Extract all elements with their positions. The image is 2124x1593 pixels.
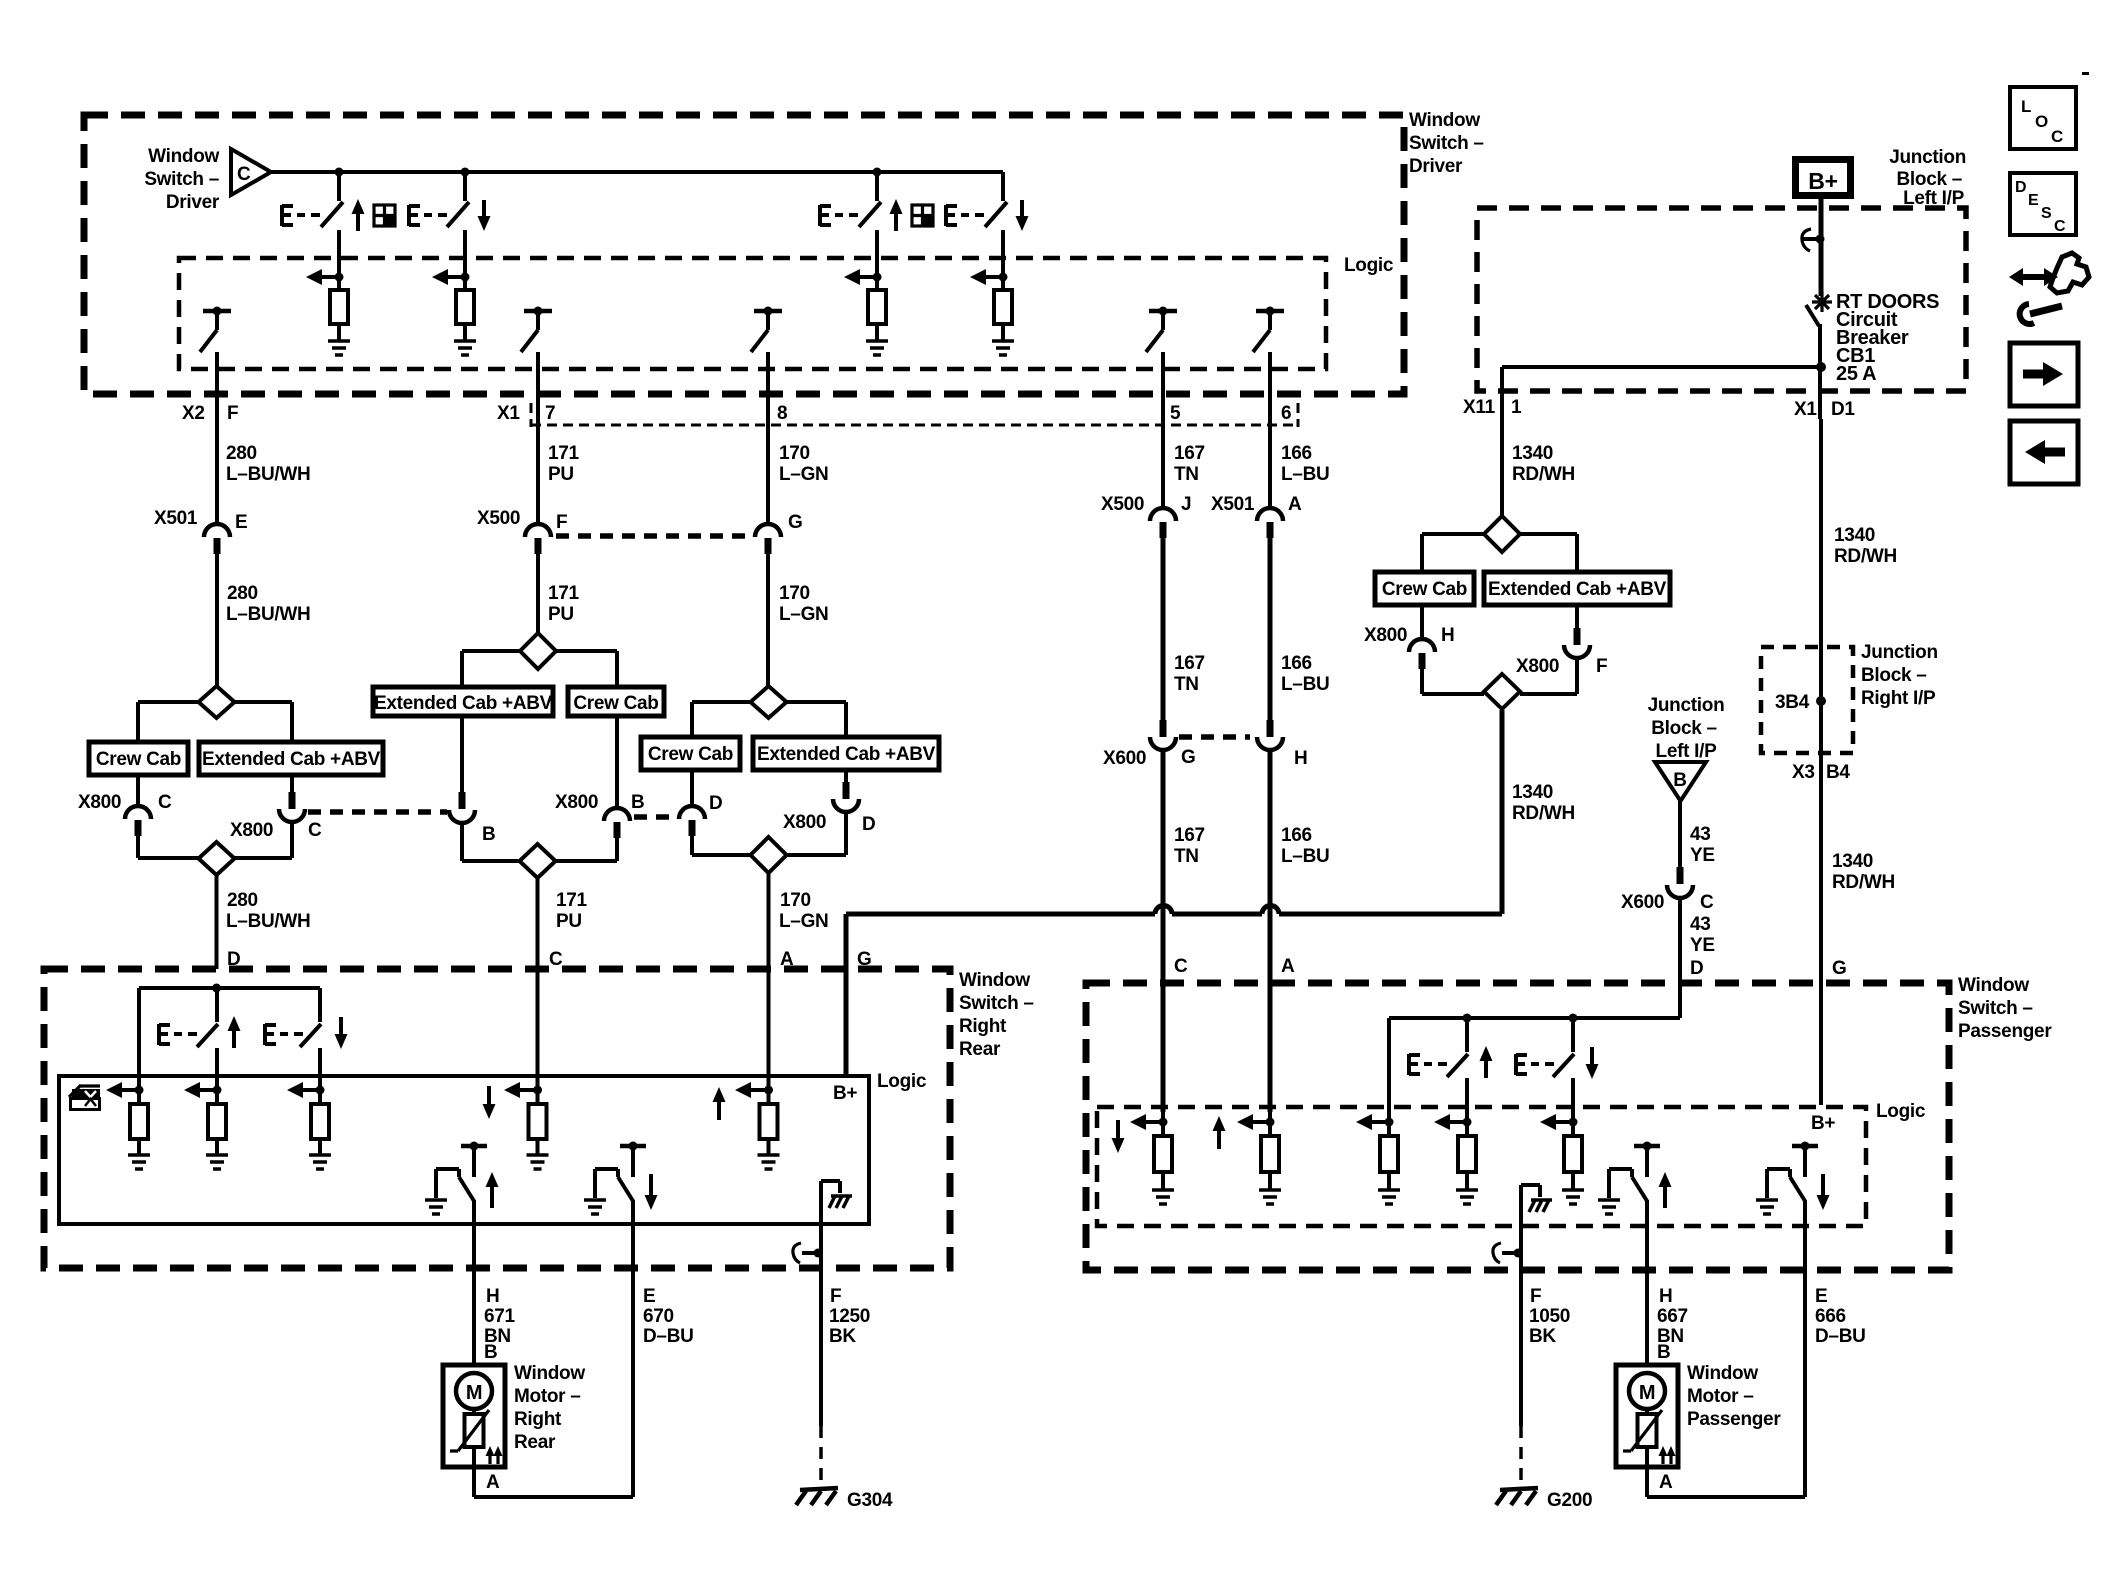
svg-text:Switch –: Switch – (959, 993, 1034, 1014)
wire: 170 crew-cab branch (692, 702, 751, 737)
wire label 171 PU (upper) (548, 443, 580, 485)
merge diamond (wire 170) (751, 837, 787, 873)
resistor R-up (right pair) with arrow and ground (844, 269, 888, 355)
pin X11 1 (1463, 397, 1522, 418)
motor drive switch DOWN (output E) (1756, 1142, 1830, 1227)
option box Extended Cab +ABV (wire 1340) (1484, 572, 1670, 605)
svg-text:B4: B4 (1826, 762, 1850, 783)
option box Extended Cab +ABV (wire 170) (753, 737, 939, 770)
svg-text:170: 170 (779, 443, 810, 464)
resistor R-down (left pair) with arrow and ground (432, 269, 476, 355)
svg-text:D: D (2015, 179, 2026, 196)
circuit breaker CB1 contact (1806, 291, 1939, 419)
svg-text:Rear: Rear (514, 1432, 556, 1453)
svg-text:Switch –: Switch – (1409, 133, 1484, 154)
svg-text:F: F (1530, 1286, 1541, 1307)
wire: 280 extended-cab branch (235, 702, 293, 742)
svg-text:Right: Right (959, 1016, 1007, 1037)
svg-text:PU: PU (556, 911, 582, 932)
resistor column 3 (down switch sense) (287, 1082, 331, 1169)
resistor column down switch sense (1540, 1114, 1584, 1204)
switch: driver window UP contact E (left pair) (282, 172, 365, 290)
svg-text:1250: 1250 (829, 1306, 870, 1327)
svg-text:L–GN: L–GN (779, 604, 828, 625)
svg-text:S: S (2041, 205, 2052, 222)
resistor column 1 (window lockout) (106, 1082, 150, 1169)
svg-text:RD/WH: RD/WH (1512, 464, 1575, 485)
connector triangle B (Junction Block Left I/P) (1655, 762, 1706, 801)
svg-text:B+: B+ (1808, 168, 1837, 194)
svg-text:D1: D1 (1831, 399, 1855, 420)
svg-text:G: G (1181, 747, 1195, 768)
svg-text:Window: Window (1958, 975, 2029, 996)
svg-text:B: B (1657, 1342, 1670, 1363)
svg-text:5: 5 (1170, 403, 1181, 424)
svg-text:X800: X800 (783, 812, 826, 833)
option box Crew Cab (wire 171) (568, 687, 664, 716)
svg-text:Logic: Logic (1876, 1101, 1926, 1122)
svg-text:O: O (2035, 112, 2048, 131)
connector X800 pin C (extended branch) with link dashes (230, 775, 447, 858)
output switch pin 6 (wire 166) (1253, 307, 1284, 509)
logic ground tie (pin F output) (1521, 1185, 1552, 1255)
nav icon back arrow (2010, 421, 2078, 484)
svg-text:TN: TN (1174, 464, 1199, 485)
wire: motor A to 666 D-BU (1647, 1495, 1805, 1499)
svg-text:F: F (556, 512, 567, 533)
svg-text:Extended Cab +ABV: Extended Cab +ABV (757, 744, 936, 765)
svg-text:D: D (709, 793, 722, 814)
nav icon forward arrow (2010, 343, 2078, 406)
svg-text:Window: Window (1409, 110, 1480, 131)
wire: B+ into junction block (1819, 199, 1824, 296)
svg-text:Window: Window (1687, 1363, 1758, 1384)
driver Logic box (179, 255, 1394, 369)
connector X800 pin C (crew branch) (78, 775, 199, 858)
svg-text:Junction: Junction (1889, 147, 1966, 168)
wire label 167 TN (upper) (1174, 443, 1205, 485)
svg-text:171: 171 (548, 583, 580, 604)
wire: 170 extended-cab branch (787, 702, 847, 737)
wire 671 BN to window motor (474, 1224, 516, 1365)
resistor column pin C (504, 1082, 549, 1169)
svg-text:A: A (1281, 956, 1295, 977)
wire 170 L-GN to pin A (769, 873, 829, 1104)
svg-text:L–BU: L–BU (1281, 846, 1329, 867)
Window Switch - Right Rear outer box (44, 969, 1034, 1268)
svg-text:X3: X3 (1792, 762, 1815, 783)
wire 166 L-BU to pin A (passenger) (1270, 751, 1329, 1136)
wire 1050 BK to ground (1521, 1255, 1570, 1481)
stray mark (2082, 72, 2089, 75)
terminal hook (B+ bus tap) (1802, 229, 1825, 251)
wire 170 L-GN to splice diamond (768, 554, 828, 686)
svg-text:D–BU: D–BU (1815, 1326, 1866, 1347)
svg-text:167: 167 (1174, 825, 1205, 846)
splice diamond (wire 280) (199, 686, 235, 718)
svg-text:BK: BK (1529, 1326, 1556, 1347)
up direction arrow (pin A input) (713, 1087, 726, 1120)
wire 666 D-BU from motor loop (1805, 1226, 1866, 1497)
pin X1 7 (497, 403, 555, 424)
window motor - right rear (443, 1363, 585, 1497)
logic ground tie (pin F output) (821, 1181, 852, 1255)
wire label 166 L-BU (upper) (1281, 443, 1329, 485)
connector X600 pin C (1621, 867, 1714, 913)
svg-text:C: C (2051, 127, 2063, 146)
svg-text:Logic: Logic (877, 1071, 927, 1092)
svg-text:X501: X501 (1211, 494, 1255, 515)
svg-text:Block –: Block – (1897, 169, 1963, 190)
svg-text:G: G (1832, 958, 1846, 979)
connector X800 pin B (extended branch) (449, 716, 520, 861)
option box Extended Cab +ABV (wire 171) (373, 687, 553, 716)
switch: passenger DOWN contact E (1516, 1018, 1599, 1136)
splice diamond (wire 170) (751, 686, 787, 718)
wire: 171 extended-cab branch (462, 651, 520, 687)
Junction Block - Right I/P dashed box (1761, 642, 1938, 783)
window motor - passenger (1616, 1363, 1781, 1497)
connector X800 pin D (crew branch) (679, 770, 751, 855)
resistor R-down (right pair) with arrow and ground (970, 269, 1014, 355)
connector X1 boundary dashed line (531, 403, 1298, 427)
svg-text:H: H (1441, 625, 1454, 646)
svg-text:43: 43 (1690, 824, 1711, 845)
svg-text:C: C (237, 164, 251, 185)
svg-text:171: 171 (548, 443, 580, 464)
svg-text:RD/WH: RD/WH (1512, 803, 1575, 824)
ground G304 (796, 1488, 893, 1511)
svg-text:F: F (1596, 656, 1607, 677)
svg-text:B+: B+ (1811, 1113, 1835, 1134)
motor drive switch UP (output H) (425, 1142, 499, 1225)
svg-text:670: 670 (643, 1306, 674, 1327)
svg-text:D: D (862, 814, 875, 835)
svg-text:H: H (1294, 748, 1307, 769)
svg-text:C: C (2054, 218, 2066, 235)
svg-text:YE: YE (1690, 845, 1715, 866)
resistor column pin C (1130, 1114, 1174, 1204)
svg-text:Right I/P: Right I/P (1861, 688, 1936, 709)
resistor column up switch sense (1434, 1114, 1478, 1204)
passenger logic box (1097, 1101, 1926, 1226)
svg-text:D–BU: D–BU (643, 1326, 694, 1347)
svg-text:H: H (486, 1286, 499, 1307)
connector X500 pin F (477, 508, 567, 554)
wire 280 L-BU/WH to splice diamond (217, 554, 310, 686)
svg-text:L–BU: L–BU (1281, 464, 1329, 485)
svg-text:Window: Window (959, 970, 1030, 991)
svg-text:B: B (631, 792, 644, 813)
connector X600 pin H (1257, 720, 1307, 769)
svg-text:1340: 1340 (1832, 851, 1873, 872)
output switch pin 5 (wire 167) (1146, 307, 1177, 509)
svg-text:166: 166 (1281, 653, 1312, 674)
svg-text:X1: X1 (497, 403, 520, 424)
svg-text:X11: X11 (1463, 397, 1496, 418)
resistor column 2 (up switch sense) (184, 1082, 228, 1169)
svg-text:280: 280 (227, 890, 258, 911)
svg-text:Driver: Driver (1409, 156, 1463, 177)
svg-text:167: 167 (1174, 653, 1205, 674)
pin X2 F (182, 403, 238, 424)
svg-text:L–GN: L–GN (779, 911, 828, 932)
svg-text:671: 671 (484, 1306, 516, 1327)
wire: 280 crew-cab branch (138, 702, 199, 742)
output switch pin 8 (wire 170) (751, 307, 782, 525)
svg-text:1340: 1340 (1834, 525, 1875, 546)
splice diamond (wire 171) (520, 633, 556, 669)
svg-text:B: B (1673, 770, 1686, 791)
svg-text:Crew Cab: Crew Cab (1382, 579, 1467, 600)
svg-text:666: 666 (1815, 1306, 1846, 1327)
svg-text:667: 667 (1657, 1306, 1688, 1327)
connector X500 pin J (1101, 494, 1191, 538)
option box Crew Cab (wire 280) (89, 742, 188, 775)
svg-text:C: C (1700, 892, 1714, 913)
splice diamond (wire 1340) (1484, 516, 1520, 552)
wire: 1340 crew-cab branch (1422, 534, 1484, 572)
svg-text:YE: YE (1690, 935, 1715, 956)
connector X500 pin G with link dashes (556, 512, 802, 554)
svg-text:1340: 1340 (1512, 782, 1553, 803)
svg-text:170: 170 (779, 583, 810, 604)
svg-text:7: 7 (545, 403, 555, 424)
svg-text:X500: X500 (477, 508, 520, 529)
wire label 1340 RD/WH (lower right) (1832, 851, 1895, 979)
svg-text:280: 280 (227, 583, 258, 604)
svg-text:L: L (2021, 97, 2031, 116)
svg-text:X1: X1 (1794, 399, 1817, 420)
svg-text:E: E (643, 1286, 655, 1307)
wire: pin D split bracket (139, 984, 320, 1105)
svg-text:3B4: 3B4 (1775, 692, 1810, 713)
svg-text:X800: X800 (1364, 625, 1407, 646)
wire 1250 BK to ground (821, 1255, 870, 1481)
svg-text:280: 280 (226, 443, 257, 464)
wire 43 YE to pin D (passenger) (1680, 899, 1715, 1018)
svg-text:G200: G200 (1547, 1490, 1592, 1511)
wire label 280 L-BU/WH (upper) (226, 443, 310, 485)
right rear logic box (59, 1071, 927, 1224)
merge diamond (wire 1340) (1484, 674, 1520, 709)
svg-text:A: A (486, 1472, 500, 1493)
svg-text:X800: X800 (230, 820, 273, 841)
svg-text:X800: X800 (1516, 656, 1559, 677)
svg-text:C: C (308, 820, 322, 841)
svg-text:Driver: Driver (166, 192, 220, 213)
svg-text:G304: G304 (847, 1490, 893, 1511)
svg-text:1050: 1050 (1529, 1306, 1570, 1327)
svg-text:Window: Window (514, 1363, 585, 1384)
svg-text:Extended Cab +ABV: Extended Cab +ABV (374, 693, 553, 714)
output switch pin F (wire 280) (200, 307, 231, 525)
svg-text:Crew Cab: Crew Cab (648, 744, 733, 765)
motor drive switch UP (output H) (1598, 1142, 1672, 1227)
svg-text:E: E (235, 512, 247, 533)
nav icon DESC (2010, 173, 2076, 235)
switch: driver window DOWN contact E (left pair) (409, 172, 491, 290)
svg-text:BK: BK (829, 1326, 856, 1347)
svg-text:C: C (549, 949, 563, 970)
svg-text:F: F (830, 1286, 841, 1307)
svg-text:B: B (482, 824, 495, 845)
svg-text:Logic: Logic (1344, 255, 1394, 276)
down direction arrow (pin C input) (483, 1086, 496, 1119)
svg-text:D: D (1690, 958, 1703, 979)
window icon (left pair) (374, 205, 395, 226)
wire 280 L-BU/WH to pin D (217, 875, 311, 970)
svg-text:M: M (1639, 1382, 1655, 1404)
motor drive switch DOWN (output E) (584, 1142, 658, 1225)
svg-text:Crew Cab: Crew Cab (573, 693, 658, 714)
resistor column pin A (1237, 1114, 1281, 1204)
wire 171 PU to pin C (538, 878, 588, 1104)
wire label 1340 RD/WH (left drop) (1512, 443, 1575, 485)
Junction Block - Left I/P label (mid) (1648, 695, 1725, 762)
wire: B+ bus from triangle C across switch tops (271, 168, 1003, 177)
wire 167 TN to pin C (passenger) (1163, 751, 1205, 1136)
wire: motor A to 670 D-BU (474, 1495, 633, 1499)
svg-text:25 A: 25 A (1836, 363, 1876, 385)
wire: 1340 extended-cab branch (1520, 534, 1577, 572)
svg-text:Passenger: Passenger (1958, 1021, 2052, 1042)
svg-text:Window: Window (148, 146, 219, 167)
switch: right rear UP contact E (159, 988, 241, 1104)
svg-text:Crew Cab: Crew Cab (96, 749, 181, 770)
connector X800 pin D (extended branch) (783, 770, 875, 855)
svg-text:E: E (2028, 192, 2039, 209)
svg-text:RD/WH: RD/WH (1834, 546, 1897, 567)
Window Switch - Driver outer box (84, 110, 1484, 394)
switch: driver window DOWN contact E (right pair) (946, 172, 1029, 290)
wire 167 TN between connectors (1163, 538, 1205, 720)
svg-text:H: H (1659, 1286, 1672, 1307)
merge diamond (wire 280) (199, 842, 235, 875)
resistor column pin A (735, 1082, 780, 1169)
option box Crew Cab (wire 170) (641, 737, 740, 770)
wire label 170 L-GN (upper) (779, 443, 828, 485)
wire 171 PU to splice diamond (538, 554, 580, 633)
svg-text:L–BU/WH: L–BU/WH (226, 604, 310, 625)
svg-text:L–BU/WH: L–BU/WH (226, 464, 310, 485)
wire 670 D-BU from motor loop (633, 1224, 694, 1497)
window indicator icon (69, 1085, 100, 1110)
svg-text:Junction: Junction (1648, 695, 1725, 716)
output switch pin 7 (wire 171) (521, 307, 552, 525)
svg-text:Extended Cab +ABV: Extended Cab +ABV (202, 749, 381, 770)
switch: passenger UP contact E (1409, 1018, 1493, 1136)
svg-text:L–BU/WH: L–BU/WH (226, 911, 310, 932)
svg-text:43: 43 (1690, 914, 1711, 935)
svg-text:Switch –: Switch – (144, 169, 219, 190)
ground G200 (1496, 1488, 1592, 1511)
svg-text:B+: B+ (833, 1083, 857, 1104)
window icon (right pair) (912, 205, 933, 226)
svg-text:G: G (788, 512, 802, 533)
connector X501 pin A (1211, 494, 1302, 538)
svg-text:X800: X800 (78, 792, 121, 813)
svg-text:TN: TN (1174, 846, 1199, 867)
wire: 171 crew-cab branch (556, 651, 617, 687)
terminal hook (pin F) (793, 1243, 823, 1263)
option box Crew Cab (wire 1340) (1375, 572, 1474, 605)
connector X800 pin H (crew branch) (1364, 605, 1484, 694)
up direction arrow (pin A input) (1213, 1116, 1226, 1149)
svg-text:TN: TN (1174, 674, 1199, 695)
svg-text:1340: 1340 (1512, 443, 1553, 464)
B+ feed box (1796, 160, 1851, 196)
svg-text:B: B (484, 1342, 497, 1363)
svg-text:Extended Cab +ABV: Extended Cab +ABV (1488, 579, 1667, 600)
svg-text:X800: X800 (555, 792, 598, 813)
switch: right rear DOWN contact E (265, 988, 348, 1104)
svg-text:L–BU: L–BU (1281, 674, 1329, 695)
terminal hook (pin F) (1493, 1243, 1523, 1263)
nav icon vehicle/wrench (2009, 253, 2089, 324)
Window Switch - Passenger outer box (1086, 975, 2052, 1270)
svg-text:PU: PU (548, 604, 574, 625)
connector X600 pin G with link dashes (1103, 720, 1250, 769)
wire 166 L-BU between connectors (1270, 538, 1329, 720)
nav icon LOC (2010, 87, 2076, 149)
wire: pin D feed rail to switches (1389, 1014, 1680, 1137)
wire: X1 D1 main feed down (1821, 419, 1897, 1105)
pin X1 D1 (1794, 399, 1855, 420)
svg-text:Block –: Block – (1861, 665, 1927, 686)
svg-text:Passenger: Passenger (1687, 1409, 1781, 1430)
switch: driver window UP contact E (right pair) (820, 172, 903, 290)
svg-text:170: 170 (780, 890, 811, 911)
svg-text:1: 1 (1511, 397, 1522, 418)
svg-text:167: 167 (1174, 443, 1205, 464)
svg-text:Rear: Rear (959, 1039, 1001, 1060)
svg-text:RD/WH: RD/WH (1832, 872, 1895, 893)
svg-text:A: A (1659, 1472, 1673, 1493)
connector triangle C (Window Switch Driver feed) (231, 149, 271, 195)
svg-text:C: C (158, 792, 172, 813)
svg-text:Right: Right (514, 1409, 562, 1430)
wire 43 YE from triangle B (1680, 801, 1715, 867)
svg-text:X500: X500 (1101, 494, 1144, 515)
down direction arrow (pin C input) (1112, 1120, 1125, 1153)
svg-text:171: 171 (556, 890, 588, 911)
svg-text:Junction: Junction (1861, 642, 1938, 663)
svg-text:X600: X600 (1103, 748, 1146, 769)
svg-text:J: J (1181, 494, 1191, 515)
connector X800 pin B (crew branch) with link dashes (555, 716, 676, 861)
connector X800 pin F (extended branch) (1516, 605, 1607, 694)
wire 667 BN to window motor (1647, 1226, 1688, 1365)
svg-text:Left I/P: Left I/P (1656, 741, 1718, 762)
option box Extended Cab +ABV (wire 280) (199, 742, 383, 775)
Junction Block - Left I/P dashed box (1477, 147, 1966, 391)
svg-text:Switch –: Switch – (1958, 998, 2033, 1019)
connector X501 pin E (154, 508, 247, 554)
resistor R-up (left pair) with arrow and ground (306, 269, 350, 355)
merge diamond (wire 171) (520, 844, 556, 878)
svg-text:M: M (466, 1382, 482, 1404)
svg-text:166: 166 (1281, 825, 1312, 846)
wire: 1340 RD/WH feed to window switches (with hops) (846, 710, 1575, 1076)
svg-text:Motor –: Motor – (1687, 1386, 1754, 1407)
svg-text:Motor –: Motor – (514, 1386, 581, 1407)
svg-text:X2: X2 (182, 403, 205, 424)
svg-text:E: E (1815, 1286, 1827, 1307)
wire: breaker output to X11 pin 1 (1502, 367, 1821, 516)
svg-text:166: 166 (1281, 443, 1312, 464)
svg-text:L–GN: L–GN (779, 464, 828, 485)
